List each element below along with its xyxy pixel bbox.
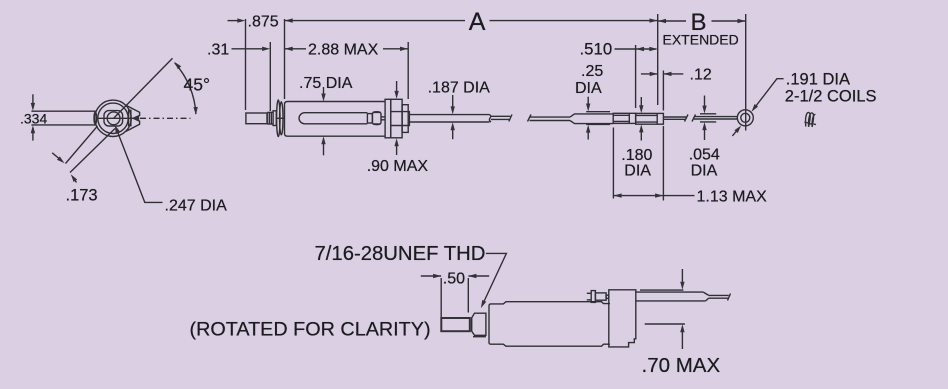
wire to coil [694,116,737,118]
output rod top line [409,114,489,116]
.187 DIA arrows [452,95,454,107]
wire resume slash [692,115,696,122]
svg-text:.75 DIA: .75 DIA [299,75,353,92]
45 degree arc [175,63,196,114]
extension line x=613.4 [612,128,614,199]
extension line x=745.7 [745,14,747,131]
wire segment to sleeve [530,116,571,118]
plunger tip rectangle [246,113,267,124]
flange washer ellipse 1 [277,100,280,137]
main body rectangle [285,102,386,137]
svg-text:7/16-28UNEF THD: 7/16-28UNEF THD [315,243,486,265]
slot end cylinder [372,112,381,124]
.173 parallel lines [66,126,98,164]
wire after cap [663,116,686,118]
.334 dimension lines [31,110,96,112]
.75 DIA arrows [323,87,325,95]
slot end cylinder arcs [373,112,381,125]
extension line x=663.4 upper [662,71,664,111]
wire break slash [509,115,512,122]
wire break slash [685,115,689,122]
connector box [595,293,606,300]
extension line x=408.2 [407,42,409,99]
slot top line [299,113,367,124]
flange centerline tick [276,117,285,119]
extension line x=284.5 [284,19,286,99]
svg-text:.334: .334 [20,111,47,127]
svg-text:.173: .173 [66,187,98,205]
.70 MAX bottom bar [645,323,685,325]
svg-text:.054: .054 [689,147,720,164]
.054 reference bars [700,113,716,115]
crimp box [613,113,635,123]
rod tip taper [703,292,708,295]
.25 reference bars [586,111,610,113]
.90 MAX arrows [396,81,398,92]
.50 extension lines [440,278,442,318]
.70 MAX top bar [640,289,683,291]
svg-text:A: A [469,8,486,36]
extension line x=663.4 lower [662,126,664,201]
extension line x=245.5 [245,19,247,110]
svg-text:.50: .50 [443,270,465,287]
.50 dimension [421,275,441,277]
bottom body outline [489,302,610,347]
.191 DIA leader [754,79,784,109]
.173 arrows [52,153,59,159]
rod bushing lines [391,112,410,126]
coils leader arrow [732,129,738,136]
tip wire end slash [728,294,731,301]
horizontal centerline through end view [97,117,133,119]
extension line x=657.7 [657,14,659,105]
svg-text:DIA: DIA [691,162,718,179]
end block rect 1 [385,99,391,138]
clip left edge lens [94,112,97,124]
.334 arrows [32,94,34,104]
.25 arrows [587,97,589,105]
flange washer ellipse 2 [280,102,283,135]
thread section large [273,111,276,126]
rod end break curve [489,115,491,122]
svg-text:2-1/2 COILS: 2-1/2 COILS [785,88,877,106]
connector pin [591,291,595,303]
dash-dot centerline to the right [140,117,191,119]
svg-text:45°: 45° [184,75,210,95]
svg-text:.25: .25 [581,63,603,80]
svg-text:.31: .31 [207,42,229,59]
svg-text:EXTENDED: EXTENDED [663,32,739,48]
end block rect 3 [402,105,408,133]
svg-text:1.13 MAX: 1.13 MAX [697,189,768,206]
bottom rod [636,291,704,293]
spring glyph [806,112,816,127]
.70 MAX up arrow [681,331,683,349]
stub lines to block [381,116,385,118]
outer circle of end view [95,100,131,136]
clip beak with V-notch [126,105,140,131]
extension line x=635.6 [635,45,637,108]
A dimension line [285,18,293,22]
1.13 MAX dimension [613,195,663,197]
arrowhead at clip bar [131,116,139,120]
bottom plunger rect [441,318,470,331]
svg-text:.247 DIA: .247 DIA [165,198,228,215]
.12 dimension [641,73,658,75]
svg-text:(ROTATED FOR CLARITY): (ROTATED FOR CLARITY) [190,318,431,340]
.70 MAX down arrow [681,269,683,283]
sleeve .25 dia [570,114,613,117]
svg-text:.875: .875 [248,14,279,31]
45 degree line [114,58,173,118]
.180 arrows [640,97,642,107]
tip wire [709,294,729,296]
end block rect 2 [391,99,402,138]
coil loop outer [737,110,753,126]
svg-text:2.88 MAX: 2.88 MAX [308,42,379,59]
THD leader [484,253,507,302]
svg-text:DIA: DIA [575,80,602,97]
thread crest lines [266,113,268,124]
inner circle of end view [98,103,128,133]
.180 cylinder section [636,113,664,124]
coil loop inner [741,113,750,122]
slot end small rect [367,114,372,123]
.875 dimension [228,20,239,22]
clip vertical bar [129,110,131,125]
.247 DIA leader [117,131,163,203]
svg-text:.90 MAX: .90 MAX [367,158,429,175]
wire segment start slash [528,115,532,122]
2.88 MAX dimension [285,47,293,51]
.054 arrows [704,96,706,108]
connector stub lines [587,292,591,294]
right block [609,290,636,347]
svg-text:DIA: DIA [624,162,651,179]
svg-text:.510: .510 [580,40,613,59]
svg-text:.191 DIA: .191 DIA [786,71,850,89]
svg-text:.70 MAX: .70 MAX [642,354,721,377]
hex nut rounded square [104,111,123,126]
extension line x=270.3 [269,42,271,111]
thread bushing [472,313,486,335]
output rod bottom line [409,121,489,123]
connector neck [606,295,609,298]
small center circle .247 [107,112,120,125]
core wire after rod [491,115,510,117]
svg-text:.187 DIA: .187 DIA [428,80,491,97]
svg-text:.12: .12 [690,67,712,84]
B dimension [658,19,666,23]
